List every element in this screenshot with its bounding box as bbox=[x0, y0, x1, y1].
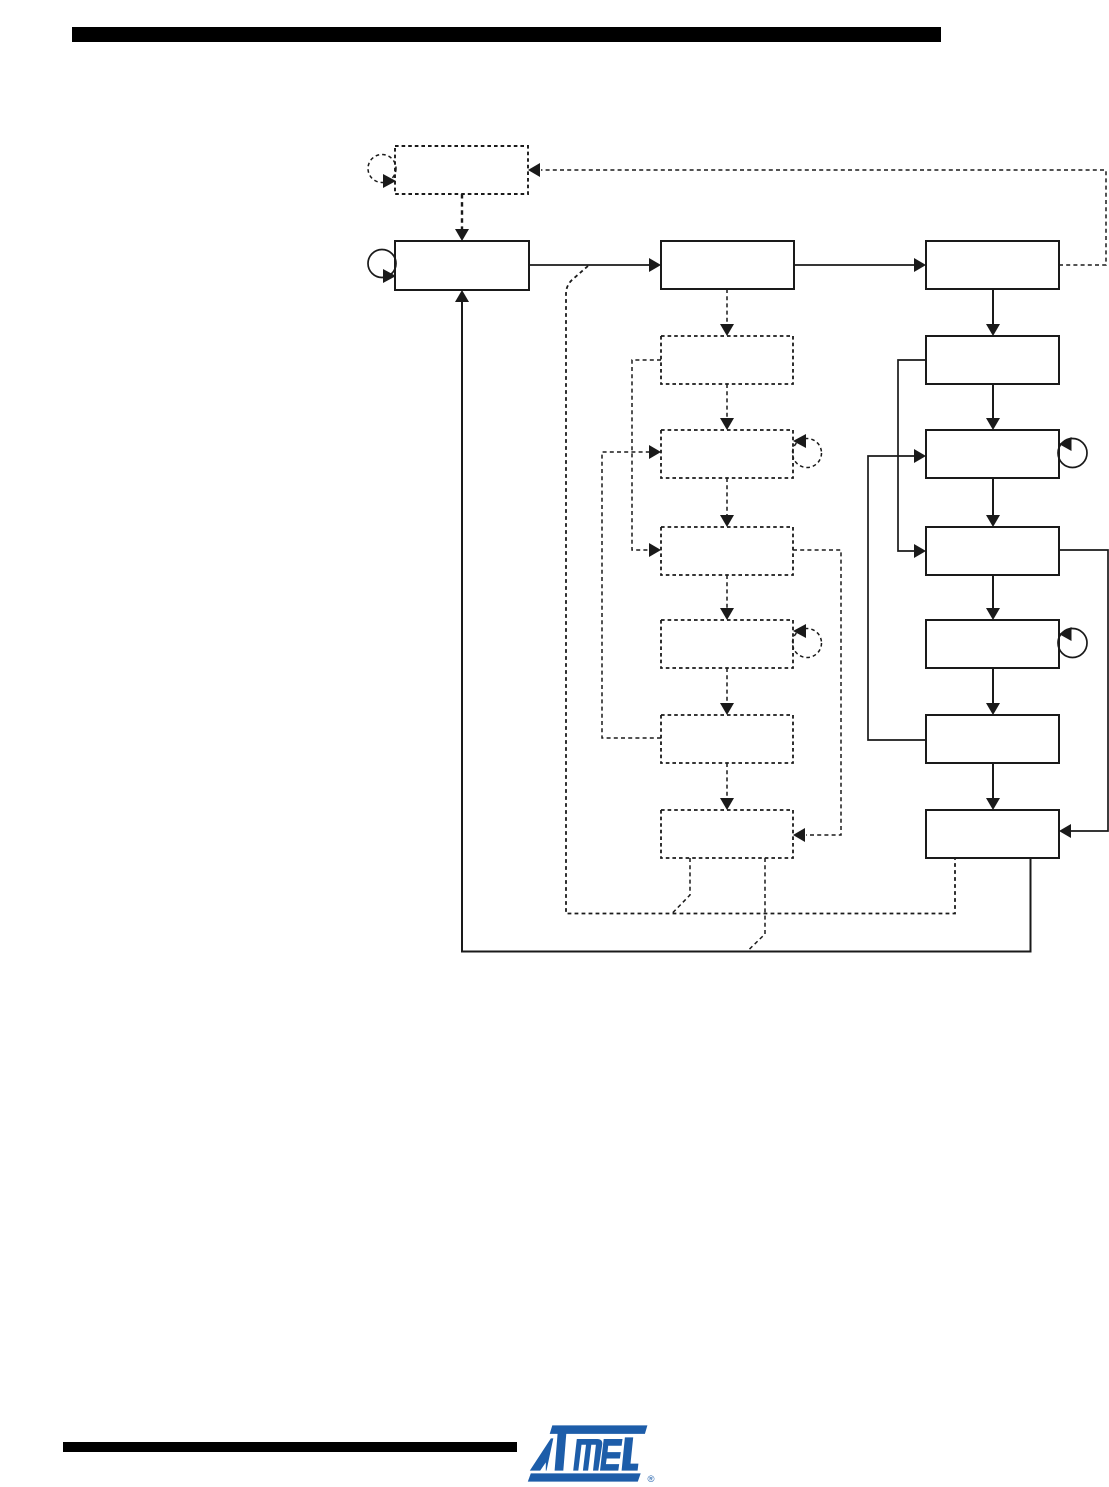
self-loop on R2 bbox=[1058, 439, 1087, 468]
wire M4 to M5 (dashed) bbox=[726, 668, 728, 703]
state box R5 bbox=[926, 715, 1059, 763]
state box SB1 (left solid) bbox=[395, 241, 529, 290]
wire R6 bottom return to SB1 bottom bbox=[462, 301, 1031, 952]
arrowhead into SB1 bottom bbox=[455, 290, 469, 302]
wire M6 bottom-left down to dashed bus bbox=[672, 858, 690, 914]
arrowhead into DB0 right bbox=[528, 163, 540, 177]
wire M3 to M4 (dashed) bbox=[726, 575, 728, 608]
arrowhead into SB2 left bbox=[649, 258, 661, 272]
wire M5 to M6 (dashed) bbox=[726, 763, 728, 798]
arrowhead into M2 top bbox=[720, 418, 734, 430]
wire DB0 to SB1 (dashed heavy) bbox=[461, 194, 463, 230]
footer rule bar bbox=[63, 1442, 517, 1452]
self-loop on R4 bbox=[1058, 629, 1087, 658]
state box R1 bbox=[926, 336, 1059, 384]
wire M5 left to M2 left (dashed) bbox=[602, 452, 661, 738]
arrowhead into R0 left bbox=[914, 258, 926, 272]
state box M4 bbox=[661, 620, 793, 668]
arrowhead into R3 top bbox=[986, 515, 1000, 527]
wire M2 to M3 (dashed) bbox=[726, 478, 728, 515]
arrowhead into R4 top bbox=[986, 608, 1000, 620]
wire R0 right feedback to DB0 (dashed) bbox=[541, 170, 1106, 265]
self-loop on M4 bbox=[793, 629, 822, 658]
arrowhead into M3 top bbox=[720, 515, 734, 527]
wire R0 to R1 bbox=[992, 289, 994, 325]
arrowhead self-loop SB1 bbox=[383, 269, 396, 283]
wire M3 right to M6 right (dashed) bbox=[793, 550, 841, 835]
arrowhead into R6 top bbox=[986, 798, 1000, 810]
arrowhead self-loop R2 bbox=[1059, 437, 1072, 451]
arrowhead into R3 left bbox=[914, 544, 926, 558]
arrowhead into R5 top bbox=[986, 703, 1000, 715]
state box DB0 (top dashed) bbox=[395, 146, 528, 194]
arrowhead self-loop DB0 bbox=[383, 174, 396, 188]
arrowhead into R1 top bbox=[986, 324, 1000, 336]
logo letter L bbox=[622, 1437, 639, 1470]
arrowhead into M1 top bbox=[720, 324, 734, 336]
wire R1 left to R3 left bbox=[898, 360, 926, 551]
state box M2 bbox=[661, 430, 793, 478]
state box R3 bbox=[926, 527, 1059, 575]
arrowhead into SB1 top bbox=[455, 229, 469, 241]
Atmel logo bbox=[528, 1425, 655, 1485]
wire R5 left to R2 left bbox=[868, 456, 926, 740]
state box M5 bbox=[661, 715, 793, 763]
self-loop on DB0 bbox=[368, 155, 396, 183]
arrowhead into M6 right bbox=[793, 828, 805, 842]
logo top slab bbox=[550, 1425, 648, 1434]
arrowhead into R2 top bbox=[986, 418, 1000, 430]
arrowhead self-loop R4 bbox=[1059, 627, 1072, 641]
wire R2 to R3 bbox=[992, 478, 994, 516]
header rule bar bbox=[72, 27, 941, 42]
arrowhead into R2 left bbox=[914, 449, 926, 463]
wire dashed branch from SB1-SB2 wire down to R6 bottom bbox=[566, 266, 955, 914]
wire SB1 to SB2 bbox=[529, 264, 650, 266]
state box R4 bbox=[926, 620, 1059, 668]
self-loop on SB1 bbox=[368, 250, 396, 278]
wire R3 right to R6 right bbox=[1059, 550, 1108, 831]
arrowhead into M2 left bbox=[649, 445, 661, 459]
logo letter T stem (fused to slab) bbox=[555, 1434, 567, 1471]
svg-text:®: ® bbox=[648, 1474, 655, 1485]
wire M1 to M2 (dashed) bbox=[726, 384, 728, 418]
arrowhead into R6 right bbox=[1059, 824, 1071, 838]
arrowhead into M5 top bbox=[720, 703, 734, 715]
arrowhead self-loop M2 bbox=[793, 434, 806, 448]
wire SB2 to M1 (dashed) bbox=[726, 289, 728, 324]
arrowhead into M3 left bbox=[649, 543, 661, 557]
wire R5 to R6 bbox=[992, 763, 994, 799]
state box M3 bbox=[661, 527, 793, 575]
arrowhead into M6 top bbox=[720, 798, 734, 810]
wire R4 to R5 bbox=[992, 668, 994, 704]
logo bottom slab bbox=[528, 1473, 641, 1481]
state box M6 bbox=[661, 810, 793, 858]
logo letter E bbox=[600, 1439, 623, 1471]
arrowhead into M4 top bbox=[720, 608, 734, 620]
state box SB2 (middle top solid) bbox=[661, 241, 794, 289]
wire M6 bottom-right down to solid return line bbox=[747, 858, 765, 952]
arrowhead self-loop M4 bbox=[793, 624, 806, 638]
self-loop on M2 bbox=[793, 439, 822, 468]
logo letter A bbox=[530, 1438, 554, 1470]
state box R0 (right top solid) bbox=[926, 241, 1059, 289]
state box R2 bbox=[926, 430, 1059, 478]
wire R3 to R4 bbox=[992, 575, 994, 609]
logo letter M bbox=[573, 1439, 602, 1471]
state box M1 bbox=[661, 336, 793, 384]
wire SB2 to R0 bbox=[794, 264, 915, 266]
wire R1 to R2 bbox=[992, 384, 994, 419]
state box R6 bbox=[926, 810, 1059, 858]
wire M1 left to M3 left (dashed) bbox=[632, 360, 661, 550]
